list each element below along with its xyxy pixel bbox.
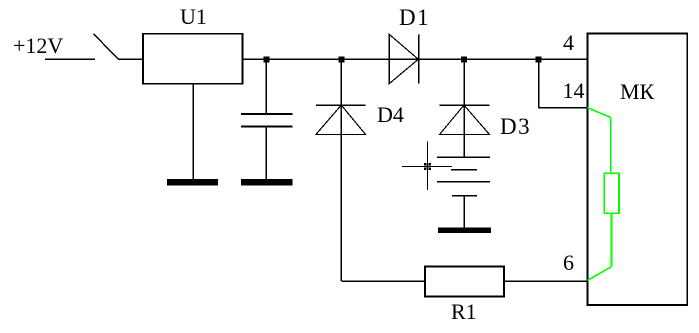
wire R1 to MK pin6: [504, 280, 588, 282]
ground: [438, 227, 491, 233]
microcontroller MK: [588, 34, 688, 306]
wire bus to capacitor: [265, 59, 267, 113]
cursor crosshair marker: [402, 141, 452, 190]
battery G1: [437, 157, 490, 195]
svg-text:МК: МК: [620, 79, 655, 104]
wire from +12V: [45, 58, 95, 60]
wire battery to ground: [463, 196, 465, 229]
switch contact: [94, 34, 119, 60]
diode D4: [316, 105, 366, 134]
capacitor C1: [241, 114, 293, 127]
svg-text:D3: D3: [500, 114, 531, 139]
regulator U1: [143, 34, 243, 84]
internal resistor (green) between pin14 and pin6: [588, 108, 620, 281]
wire D4 branch to R1: [341, 280, 425, 282]
node junction at D4: [338, 56, 344, 62]
wire capacitor to ground: [265, 126, 267, 179]
ground: [241, 179, 293, 186]
node junction at D3: [461, 56, 467, 62]
node junction at capacitor: [263, 56, 269, 62]
ground: [167, 179, 218, 186]
wire bus through D4 to bottom: [340, 59, 342, 281]
svg-text:+12V: +12V: [13, 33, 63, 58]
svg-text:14: 14: [563, 78, 585, 103]
resistor R1: [425, 267, 504, 297]
diode D1: [389, 34, 419, 83]
wire pin14 branch: [539, 59, 588, 108]
wire switch to U1: [118, 58, 143, 60]
svg-text:6: 6: [563, 250, 574, 275]
wire U1 to ground: [192, 84, 194, 179]
svg-text:D1: D1: [399, 5, 430, 30]
svg-text:D4: D4: [377, 102, 404, 127]
svg-text:R1: R1: [451, 299, 477, 324]
wire bus to D3 and battery: [463, 59, 465, 157]
svg-text:4: 4: [563, 30, 574, 55]
svg-text:U1: U1: [180, 4, 207, 29]
wire main bus U1 to MK pin4: [243, 58, 588, 60]
node junction at pin14 branch: [536, 56, 542, 62]
diode D3: [440, 105, 490, 134]
